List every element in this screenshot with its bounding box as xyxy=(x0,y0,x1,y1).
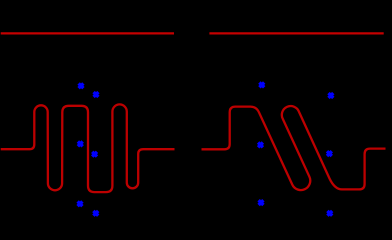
impurity left panel row1 col1 xyxy=(79,83,84,88)
diffusive trajectory, left panel xyxy=(1,104,175,192)
impurity right panel row2 col1 xyxy=(258,143,263,148)
impurity left panel row2 col1 xyxy=(78,142,83,147)
upper boundary line, left panel xyxy=(1,32,174,34)
impurity left panel row2 col2 xyxy=(92,152,97,157)
impurity right panel row1 col1 xyxy=(259,83,264,88)
impurity left panel row3 col2 xyxy=(93,211,98,216)
impurity right panel row1 col2 xyxy=(329,93,334,98)
impurity right panel row2 col2 xyxy=(327,151,332,156)
impurity left panel row3 col1 xyxy=(78,201,83,206)
ballistic trajectory, right panel xyxy=(202,106,386,190)
upper boundary line, right panel xyxy=(209,32,383,34)
impurity right panel row3 col1 xyxy=(259,200,264,205)
impurity markers xyxy=(78,83,334,216)
impurity left panel row1 col2 xyxy=(94,92,99,97)
impurity right panel row3 col2 xyxy=(327,211,332,216)
